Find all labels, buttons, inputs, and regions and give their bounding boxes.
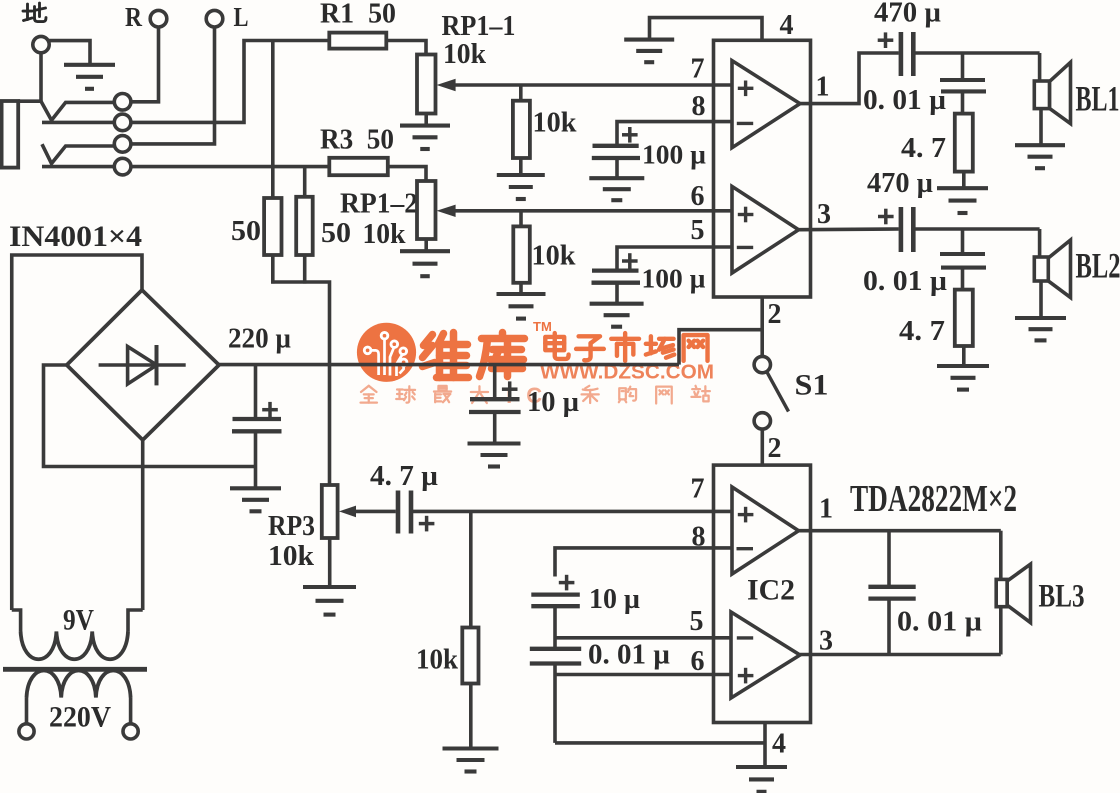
svg-text:50: 50	[231, 215, 261, 247]
svg-text:1: 1	[819, 494, 833, 525]
speaker BL1 frame	[1034, 81, 1049, 109]
watermark logo circle	[357, 323, 416, 382]
svg-text:220V: 220V	[49, 701, 111, 734]
wire IC2 pin4 to ground	[763, 723, 767, 767]
wire bridge AC1 (top)	[12, 255, 142, 610]
capacitor 10u (rail)	[469, 399, 521, 412]
wire R3 to RP1-2	[388, 167, 426, 181]
diode D1 triangle	[128, 347, 157, 385]
svg-text:6: 6	[691, 181, 705, 212]
wire 4.7#1 to ground	[962, 172, 966, 188]
ground (RP1-2)	[400, 251, 450, 276]
svg-text:4. 7: 4. 7	[899, 315, 945, 347]
resistor 10k (IC2 input)	[462, 628, 478, 684]
wire 470u#1 to BL1	[915, 51, 1039, 55]
speaker BL3 frame	[996, 579, 1007, 606]
speaker BL2 cone	[1048, 240, 1070, 298]
wire to speaker BL1	[1038, 53, 1042, 81]
wire 10u#2 to 0.01u#4	[553, 606, 557, 649]
wire 4.7u to pin7 (IC2)	[413, 510, 732, 514]
svg-text:BL1: BL1	[1076, 79, 1120, 119]
wire 470u#2 to BL2	[915, 227, 1039, 231]
capacitor 470u #1 plus	[878, 32, 894, 48]
wire S1 to IC2 pin2	[760, 429, 764, 465]
wire 0.01u#4 down to ground wire	[553, 664, 557, 743]
ground (220u)	[230, 488, 281, 511]
wire 地 terminal to jack sleeve	[39, 53, 43, 103]
resistor 10k (pin6 bias)	[513, 226, 530, 282]
ground (10k pin7)	[497, 175, 545, 199]
op-amp U1a plus input	[738, 81, 754, 97]
capacitor 4.7u	[398, 491, 411, 534]
wire 10k to ground	[519, 283, 523, 294]
wiper arrow RP1-2	[437, 205, 456, 217]
wire 4.7#2 to ground	[962, 346, 966, 365]
svg-text:0. 01 µ: 0. 01 µ	[863, 85, 946, 116]
svg-text:10k: 10k	[532, 240, 577, 272]
jack contact 4 line	[42, 165, 115, 169]
wire BL3 branch lower	[999, 607, 1003, 655]
capacitor 10u plus	[502, 381, 518, 397]
wire pin4 to ground	[650, 18, 763, 41]
svg-text:8: 8	[692, 91, 706, 122]
capacitor 0.01u #4	[530, 649, 581, 664]
jack body sleeve	[2, 101, 19, 168]
switch S1 lever	[767, 372, 789, 412]
wire pin6 (IC2)	[555, 673, 731, 677]
capacitor 100u #1 plus	[622, 127, 638, 143]
svg-text:10k: 10k	[363, 218, 407, 250]
ground (BL1)	[1015, 145, 1065, 168]
wire RP3 wiper to 4.7u	[354, 510, 396, 514]
capacitor 10u #2	[531, 595, 580, 607]
op-amp U2a triangle	[732, 487, 799, 574]
svg-text:BL2: BL2	[1076, 246, 1120, 286]
svg-text:3: 3	[817, 199, 831, 230]
transformer secondary winding 9V	[21, 632, 128, 660]
wire bridge AC2 (bottom)	[141, 440, 145, 610]
wiper arrow RP3	[339, 506, 356, 518]
svg-text:R: R	[125, 2, 142, 32]
svg-text:TDA2822M×2: TDA2822M×2	[850, 478, 1017, 520]
svg-text:0. 01 µ: 0. 01 µ	[588, 640, 670, 671]
op-amp U2b triangle	[731, 612, 800, 698]
wire contact1 to R terminal	[131, 27, 159, 102]
svg-text:10k: 10k	[416, 644, 459, 676]
op-amp U1b minus input	[737, 246, 753, 249]
wire 100u#1 to ground	[615, 158, 619, 178]
resistor 50 #1	[264, 198, 281, 255]
svg-text:4. 7: 4. 7	[901, 132, 946, 164]
transformer secondary left lead	[12, 610, 21, 632]
svg-text:1: 1	[816, 72, 830, 103]
transformer secondary right lead	[128, 610, 143, 632]
wire bridge minus output	[44, 365, 256, 467]
ground (10k pin6)	[497, 294, 546, 319]
transformer primary right lead	[129, 698, 133, 724]
capacitor 10u #2 plus	[559, 575, 575, 591]
potentiometer RP3	[322, 485, 338, 538]
label 地 (ground terminal)	[23, 3, 46, 22]
svg-text:8: 8	[692, 522, 706, 553]
wire to speaker BL2	[1038, 229, 1042, 257]
ground (4.7 #1)	[937, 188, 988, 213]
wire pin3 output (IC2)	[800, 653, 1001, 657]
svg-text:4: 4	[772, 729, 786, 760]
svg-text:100 µ: 100 µ	[642, 140, 706, 170]
wire node to 0.01u #1	[961, 53, 965, 79]
wiper arrow RP1-1	[437, 79, 456, 91]
op-amp U2b minus input	[737, 636, 753, 639]
op-amp U2a plus input	[738, 507, 754, 523]
svg-text:L: L	[234, 2, 249, 32]
svg-text:2: 2	[768, 433, 782, 464]
transformer core	[3, 667, 147, 672]
svg-text:10 µ: 10 µ	[527, 386, 579, 418]
wire BL2 to ground	[1039, 281, 1043, 317]
speaker BL1 cone	[1050, 62, 1071, 123]
wire BL3 branch upper	[999, 531, 1003, 580]
capacitor 100u #2	[592, 271, 641, 283]
svg-text:10k: 10k	[533, 107, 578, 139]
resistor R3	[329, 158, 388, 175]
wire pin1 output (IC2)	[799, 529, 1001, 533]
wire node to 10k (IC2)	[469, 511, 473, 627]
svg-text:IN4001×4: IN4001×4	[9, 220, 142, 253]
jack spring contact 1 (R tip)	[41, 101, 115, 120]
resistor 50 #2	[296, 197, 313, 255]
bridge rectifier diamond	[67, 290, 219, 440]
op-amp U2b plus input	[738, 668, 754, 684]
wire pin3 output	[799, 227, 899, 231]
ground (BL2)	[1015, 318, 1066, 340]
svg-text:RP3: RP3	[268, 510, 315, 542]
node contact circle 1	[114, 94, 131, 111]
node contact circle 4	[114, 158, 131, 175]
svg-text:10k: 10k	[268, 540, 315, 572]
ground (RP1-1)	[400, 126, 450, 149]
svg-text:220 µ: 220 µ	[228, 323, 291, 355]
ground (IC2 pin4)	[736, 767, 787, 792]
capacitor 0.01u #3	[868, 587, 915, 599]
wire pin6 node to 10k	[519, 211, 523, 227]
wire rail to 10u	[493, 365, 497, 398]
terminal 220V right circle	[123, 724, 138, 739]
diode D1 cathode bar	[155, 345, 159, 385]
capacitor 100u #2 plus	[622, 253, 638, 269]
svg-text:5: 5	[690, 606, 704, 637]
svg-text:R1 50: R1 50	[320, 0, 396, 30]
svg-text:6: 6	[691, 646, 705, 677]
ground (10u rail)	[468, 444, 521, 467]
diode D1 wire	[99, 363, 186, 367]
capacitor 470u #2 plus	[878, 209, 894, 225]
jack contact 2 line	[42, 121, 115, 125]
capacitor 470u #2	[901, 207, 913, 252]
wire pin7 node to 10k	[519, 85, 523, 101]
capacitor 0.01u #2	[940, 254, 986, 268]
svg-text:50: 50	[321, 217, 351, 249]
svg-text:9V: 9V	[63, 604, 94, 637]
potentiometer RP1-1	[417, 55, 436, 114]
terminal 地 circle	[33, 36, 49, 52]
svg-text:TM: TM	[533, 319, 552, 334]
ground (10k IC2)	[443, 749, 499, 772]
ground (RP3)	[303, 587, 356, 615]
ground (input jack)	[64, 65, 115, 89]
op-amp IC2 box	[714, 465, 811, 722]
watermark text 维库	[423, 333, 525, 378]
wire pin1 output	[800, 53, 899, 104]
wire rail to 220u	[254, 365, 258, 417]
ground (100u #2)	[590, 304, 644, 327]
svg-text:100 µ: 100 µ	[642, 264, 706, 294]
wire RP3 to ground	[328, 538, 332, 586]
capacitor 470u #1	[901, 32, 913, 76]
wire rail to pin2	[679, 330, 762, 365]
wire contact3 to L terminal	[131, 27, 215, 144]
wire node to 0.01u #2	[961, 229, 965, 254]
svg-text:2: 2	[768, 299, 782, 330]
watermark logo circuit-tree traces	[364, 332, 407, 376]
wire pin8 (IC2)	[555, 548, 732, 577]
svg-text:0. 01 µ: 0. 01 µ	[897, 607, 982, 638]
svg-text:10k: 10k	[443, 38, 487, 70]
wire contact4 to R3	[131, 165, 329, 169]
svg-text:5: 5	[691, 215, 705, 246]
op-amp U1b plus input	[738, 207, 754, 223]
jack spring contact 3 (L tip)	[42, 144, 115, 163]
wire RP1-1 wiper to pin7	[453, 83, 732, 87]
capacitor 220u	[232, 419, 282, 431]
svg-text:470 µ: 470 µ	[867, 167, 933, 199]
node contact circle 3	[114, 136, 131, 153]
wire 10k to ground (IC2)	[469, 683, 473, 747]
watermark text 电子市场网	[545, 333, 707, 361]
ground (100u #1)	[589, 178, 644, 200]
svg-text:10 µ: 10 µ	[589, 583, 640, 615]
wire 50s junction to RP3	[271, 282, 329, 485]
potentiometer RP1-2	[417, 181, 436, 239]
ground (4.7 #2)	[937, 366, 989, 390]
resistor 4.7 #2	[955, 290, 973, 346]
op-amp IC1 box	[714, 40, 811, 297]
transformer primary left lead	[25, 698, 29, 724]
transformer primary winding 220V	[27, 671, 131, 698]
svg-text:BL3: BL3	[1039, 579, 1085, 615]
wire jack sleeve top edge	[18, 99, 41, 103]
terminal 220V left circle	[19, 724, 34, 739]
terminal R circle	[150, 10, 167, 27]
wire 50#1 stem from R1 node	[271, 41, 275, 199]
resistor 10k (pin7 bias)	[513, 101, 530, 158]
svg-text:0. 01 µ: 0. 01 µ	[863, 266, 947, 297]
switch S1 lower contact	[754, 413, 770, 429]
wire RP1-1 to ground	[424, 114, 428, 126]
switch S1 upper contact	[754, 356, 770, 372]
wire 0.01u#2 to 4.7#2	[961, 268, 965, 290]
svg-text:3: 3	[819, 626, 833, 657]
wire 10u to ground	[493, 412, 497, 443]
wire 220u to ground	[254, 431, 258, 487]
op-amp U1a triangle	[732, 61, 800, 148]
wire 100u#2 to ground	[615, 283, 619, 303]
resistor R1	[329, 33, 386, 49]
watermark text 全球最大IC采购网站	[361, 383, 710, 408]
capacitor 4.7u plus	[419, 516, 435, 532]
capacitor 220u plus	[262, 402, 278, 418]
wire pin5 from 100u corner	[617, 247, 732, 269]
speaker BL3 cone	[1007, 564, 1030, 622]
terminal L circle	[206, 10, 223, 27]
wire RP1-2 wiper to pin6	[453, 209, 732, 213]
wire node to 0.01u #3	[887, 531, 891, 585]
wire 地 to ground symbol	[49, 41, 91, 63]
resistor 4.7 #1	[955, 114, 973, 172]
svg-text:RP1–2: RP1–2	[340, 188, 418, 220]
wire to IC2 pin4 ground	[555, 741, 765, 745]
wire R1 to RP1-1	[386, 41, 426, 55]
svg-text:4: 4	[780, 10, 794, 41]
node contact circle 2	[114, 114, 131, 131]
wire 0.01u#3 to pin3 wire	[887, 599, 891, 655]
svg-text:4. 7 µ: 4. 7 µ	[370, 460, 438, 492]
svg-text:R3 50: R3 50	[320, 124, 394, 156]
capacitor 0.01u #1	[940, 80, 986, 91]
op-amp U2a minus input	[737, 547, 754, 550]
svg-text:7: 7	[691, 54, 705, 85]
svg-text:7: 7	[691, 474, 705, 505]
wire 50#1 bottom	[271, 255, 275, 284]
wire contact2 to R1 (input feed)	[131, 41, 329, 123]
wire pin2 down to S1	[760, 297, 764, 356]
wire R3 node to 50#2	[303, 167, 307, 197]
wire pin5 (IC2)	[555, 636, 732, 640]
wire rail (V+)	[219, 363, 679, 367]
op-amp U1a minus input	[737, 122, 753, 125]
wire 50#2 bottom	[303, 255, 307, 284]
wire RP1-2 to ground	[424, 239, 428, 251]
svg-text:470 µ: 470 µ	[874, 0, 941, 29]
speaker BL2 frame	[1034, 257, 1048, 281]
svg-text:IC2: IC2	[747, 574, 795, 607]
wire 10k to ground	[519, 158, 523, 175]
ground (IC1 pin4)	[624, 40, 674, 63]
svg-text:S1: S1	[795, 369, 829, 402]
wire BL1 to ground	[1039, 109, 1043, 144]
wire 0.01u#1 to 4.7#1	[961, 91, 965, 113]
capacitor 100u #1	[592, 146, 640, 158]
op-amp U1b triangle	[732, 186, 799, 273]
wire pin8 from 100u corner	[617, 122, 732, 144]
